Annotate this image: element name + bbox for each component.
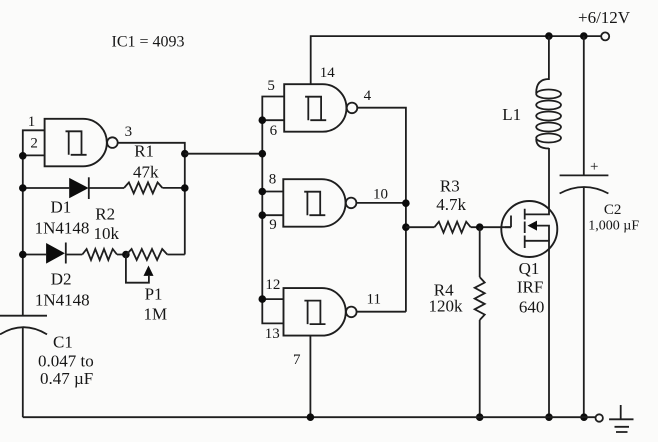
wire gates input bus	[261, 120, 263, 299]
Q1 bulk arrow	[528, 221, 538, 231]
wire P1 wiper return	[126, 255, 149, 283]
svg-text:IC1 = 4093: IC1 = 4093	[112, 34, 185, 51]
wire pin1 input bracket	[23, 130, 45, 155]
svg-text:C1: C1	[53, 333, 73, 352]
capacitor C1	[0, 315, 47, 317]
node Q1 source ground junction	[545, 413, 553, 421]
gate D output bubble	[346, 307, 357, 318]
wire gate D output	[357, 311, 406, 313]
wire gate B input bracket	[262, 97, 284, 121]
svg-text:1N4148: 1N4148	[35, 291, 90, 310]
wire pin 3 output to vertical	[118, 143, 185, 255]
op-amp U1 gate D (pins 12,13,11)	[284, 288, 346, 336]
node C2 ground junction	[580, 413, 588, 421]
node left bus D2 row	[19, 251, 27, 259]
svg-text:5: 5	[267, 78, 275, 94]
gate B output bubble	[347, 103, 358, 114]
resistor R1	[124, 182, 162, 193]
wire pin 9	[262, 214, 283, 216]
resistor R3	[434, 222, 470, 233]
supply terminal	[601, 32, 609, 40]
op-amp U1 gate A (4093 NAND pins 1,2,3)	[45, 119, 107, 167]
node pin 6	[259, 116, 267, 124]
diode D2	[46, 243, 65, 264]
capacitor C2 top lead	[583, 36, 585, 175]
gate D hysteresis symbol	[304, 301, 325, 325]
node pin 8	[259, 188, 267, 196]
op-amp U1 gate B (pins 5,6,4)	[284, 84, 346, 132]
gate C hysteresis symbol	[304, 192, 325, 216]
svg-text:6: 6	[270, 123, 278, 139]
node R3/R4 gate junction	[476, 223, 484, 231]
ground symbol	[609, 405, 633, 432]
node L1 top junction	[545, 32, 553, 40]
wire gate C output	[356, 202, 406, 204]
svg-text:R3: R3	[440, 177, 460, 196]
wire R4 top lead	[479, 227, 481, 277]
svg-text:12: 12	[265, 277, 280, 293]
wire R4 bottom lead	[479, 320, 481, 417]
gate A output bubble	[107, 137, 118, 148]
transistor Q1 body circle	[501, 201, 557, 257]
wire D2/R2/P1 row	[23, 254, 185, 256]
svg-text:0.047 to: 0.047 to	[38, 352, 94, 371]
wire D1/R1 row	[23, 187, 185, 189]
svg-text:120k: 120k	[429, 297, 464, 316]
svg-text:P1: P1	[145, 285, 163, 304]
wire pin 8	[262, 191, 283, 193]
gate B hysteresis symbol	[305, 97, 326, 121]
wire gate D input bracket	[262, 299, 283, 323]
svg-text:11: 11	[367, 292, 381, 308]
node pin1/2 junction	[19, 152, 27, 160]
node input bus crosswire	[259, 150, 267, 158]
node R1 right junction	[181, 184, 189, 192]
svg-text:8: 8	[269, 172, 277, 188]
svg-text:Q1: Q1	[519, 259, 540, 278]
svg-text:1,000 µF: 1,000 µF	[588, 219, 639, 234]
svg-text:14: 14	[320, 65, 336, 81]
svg-text:47k: 47k	[133, 162, 159, 181]
svg-text:R2: R2	[95, 205, 115, 224]
pin 14 stem and top supply wire	[311, 36, 602, 84]
wire R3 row	[406, 226, 511, 228]
svg-text:7: 7	[293, 352, 301, 368]
svg-text:1N4148: 1N4148	[35, 219, 90, 238]
svg-text:+6/12V: +6/12V	[578, 8, 631, 27]
inductor L1 leads	[548, 36, 550, 80]
node pin 12	[259, 295, 267, 303]
node gate C output junction	[402, 199, 410, 207]
Q1 drain lead	[525, 148, 549, 214]
resistor R2	[82, 249, 117, 260]
node left bus D1 row	[19, 184, 27, 192]
node pin 9	[259, 211, 267, 219]
svg-text:D2: D2	[51, 270, 72, 289]
svg-text:1: 1	[28, 114, 36, 130]
wire ground rail	[23, 416, 596, 418]
capacitor C2 bottom lead	[583, 187, 585, 417]
potentiometer P1	[127, 249, 168, 260]
svg-text:4.7k: 4.7k	[436, 195, 466, 214]
wire C1 bottom to ground rail	[22, 328, 24, 418]
resistor R4	[475, 277, 485, 320]
svg-text:3: 3	[125, 124, 133, 140]
gate A hysteresis symbol	[66, 131, 87, 155]
svg-text:2: 2	[30, 136, 38, 152]
wire gate B output to right vertical	[357, 108, 406, 312]
svg-text:0.47 µF: 0.47 µF	[40, 369, 93, 388]
node C2 top junction	[580, 32, 588, 40]
op-amp U1 gate C (pins 8,9,10)	[283, 179, 345, 227]
pin 7 stem to ground rail	[309, 336, 311, 418]
gate C output bubble	[346, 198, 357, 209]
node pin3 vertical crosswire junction	[181, 150, 189, 158]
svg-text:L1: L1	[502, 105, 521, 124]
svg-text:IRF: IRF	[517, 278, 543, 297]
Q1 channel segments	[524, 209, 526, 248]
inductor L1 coil	[536, 79, 561, 149]
node R3 branch junction	[402, 223, 410, 231]
svg-text:C2: C2	[604, 202, 622, 218]
diode D1	[69, 178, 88, 198]
svg-text:D1: D1	[51, 198, 72, 217]
Q1 gate lead	[505, 216, 511, 228]
node R2/P1 wiper junction	[122, 251, 130, 259]
svg-text:9: 9	[269, 217, 277, 233]
svg-text:4: 4	[364, 88, 372, 104]
ground terminal	[596, 414, 603, 421]
wire crossover to gates input bus	[185, 153, 262, 155]
Q1 source lead	[525, 241, 549, 417]
wire left bus down to C1	[22, 155, 24, 315]
node R4 ground junction	[476, 413, 484, 421]
svg-text:640: 640	[519, 298, 545, 317]
P1 wiper arrow	[144, 266, 154, 276]
node pin 7 ground junction	[307, 413, 315, 421]
capacitor C2 plates	[560, 174, 609, 176]
svg-text:10: 10	[373, 187, 388, 203]
svg-text:10k: 10k	[94, 224, 120, 243]
svg-text:1M: 1M	[144, 305, 168, 324]
svg-text:R1: R1	[134, 142, 154, 161]
svg-text:+: +	[590, 159, 598, 175]
svg-text:13: 13	[265, 326, 280, 342]
